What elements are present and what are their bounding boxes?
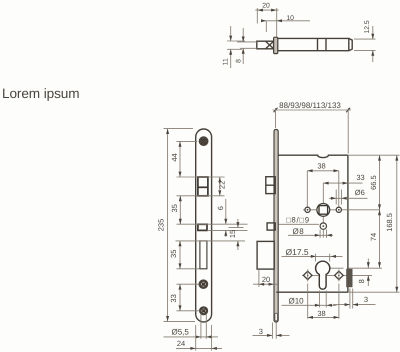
dimension 8 right upper line+arrow xyxy=(367,259,369,269)
label square 8/9 leader xyxy=(279,223,320,225)
middle screw hole xyxy=(200,281,207,288)
dimension diam10 leader line xyxy=(282,304,337,306)
dimension 10 line xyxy=(262,20,311,22)
svg-text:24: 24 xyxy=(177,339,185,348)
hole diam8 circle xyxy=(320,223,326,229)
svg-text:168.5: 168.5 xyxy=(385,213,394,232)
dimension 12.5 lower line+arrow xyxy=(372,50,374,62)
deadbolt thrown xyxy=(257,241,274,269)
svg-text:3: 3 xyxy=(364,295,368,304)
top witness extension right xyxy=(348,154,400,156)
svg-text:11: 11 xyxy=(222,58,229,65)
svg-text:20: 20 xyxy=(262,2,270,9)
witness line mid hole 284 xyxy=(177,283,199,285)
dimension 88/93/98/113/133 line xyxy=(273,109,352,111)
dimension 22 line xyxy=(219,177,221,196)
hole 5.5 witness right xyxy=(205,314,207,339)
dimension 168.5 line xyxy=(396,155,398,292)
bottom witness extension right xyxy=(348,291,400,293)
diamond centreline horizontal xyxy=(302,274,319,276)
dimension 3 left lines+arrows xyxy=(253,334,273,336)
bottom screw hole xyxy=(200,307,207,314)
witness cylinder centre right xyxy=(349,267,383,269)
shaft end vertical xyxy=(348,38,350,50)
svg-text:33: 33 xyxy=(356,173,364,182)
dimension 35a line xyxy=(179,196,181,224)
witness line slot top 240.9 xyxy=(176,240,246,242)
dimension diam8 witness lines xyxy=(319,230,321,239)
latch head rectangle xyxy=(257,41,274,49)
svg-text:12.5: 12.5 xyxy=(364,20,371,33)
svg-text:88/93/98/113/133: 88/93/98/113/133 xyxy=(279,101,341,110)
latch bevel X diagonal 2 xyxy=(266,41,274,49)
svg-text:74: 74 xyxy=(369,233,378,241)
dimension 44 line xyxy=(179,141,181,177)
witness line latch top 177 xyxy=(177,176,225,178)
shaft groove line 1 xyxy=(317,38,319,50)
witness line aux bottom 230.4 xyxy=(207,229,248,231)
dimension 3 left witness lines xyxy=(271,323,273,339)
svg-text:38: 38 xyxy=(317,309,325,318)
dimension diam10 witness lines xyxy=(318,291,320,308)
auxiliary block case view xyxy=(267,223,275,230)
dimension 24 line xyxy=(176,347,222,349)
dimension 6 upper line+arrow xyxy=(225,199,227,224)
svg-text:66.5: 66.5 xyxy=(369,175,378,190)
dimension 38 bottom line xyxy=(308,316,339,318)
right pin circle xyxy=(336,207,341,212)
dimension 15 lower line+arrow xyxy=(237,241,239,250)
dimension 8 upper line+arrow xyxy=(242,28,244,42)
svg-text:44: 44 xyxy=(170,153,179,161)
dimension 11 lower line+arrow xyxy=(230,49,232,68)
dimension 8 lower line+arrow xyxy=(242,48,244,64)
dimension diam6 leader line xyxy=(329,197,368,199)
svg-text:6: 6 xyxy=(216,206,225,210)
svg-text:10: 10 xyxy=(286,15,294,22)
dimension 20 left arrow xyxy=(257,9,263,12)
24 witness left xyxy=(195,325,197,351)
dimension diam17.5 witness lines xyxy=(315,254,317,262)
follower square xyxy=(319,206,328,215)
witness line bottom hole 310.8 xyxy=(177,310,200,312)
svg-text:Ø5,5: Ø5,5 xyxy=(172,328,190,337)
svg-text:3: 3 xyxy=(259,327,263,336)
follower outer circle xyxy=(317,204,330,217)
witness left circle up xyxy=(306,171,308,207)
witness line 11 top xyxy=(227,40,245,42)
dimension 35b line xyxy=(179,241,181,269)
case bottom edge xyxy=(276,291,348,293)
svg-text:Ø6: Ø6 xyxy=(355,188,365,197)
svg-text:Ø10: Ø10 xyxy=(289,296,305,305)
dimension 6 lower line+arrow xyxy=(225,230,227,237)
dimension 20 right arrow xyxy=(271,9,277,12)
svg-text:35: 35 xyxy=(169,250,178,258)
left diamond xyxy=(303,271,312,279)
witness line hole centre 141 xyxy=(177,140,198,142)
forend bar bottom detail xyxy=(275,313,278,321)
cylinder centreline horizontal xyxy=(323,267,344,269)
latch opening front xyxy=(198,177,208,196)
follower horizontal centreline xyxy=(303,209,380,211)
witness line 8 bottom xyxy=(240,47,257,49)
dimension diam8 leader line xyxy=(288,234,333,236)
dimension diam6 witness lines xyxy=(335,190,337,205)
svg-text:20: 20 xyxy=(262,275,270,284)
forend bar case view xyxy=(274,130,278,323)
dimension 12.5 upper line+arrow xyxy=(372,26,374,39)
svg-text:38: 38 xyxy=(317,162,325,171)
auxiliary opening front xyxy=(198,224,207,230)
svg-text:Ø17.5: Ø17.5 xyxy=(286,247,309,257)
witness line 11 bottom xyxy=(227,48,242,50)
witness line latch bottom 195.8 xyxy=(177,195,225,197)
witness line aux top 224.2 xyxy=(177,223,248,225)
witness line 8 top xyxy=(237,41,257,43)
svg-text:□8/□9: □8/□9 xyxy=(286,215,310,224)
dimension 20 line xyxy=(255,9,278,11)
dimension 8 right lower line+arrow xyxy=(367,275,369,286)
witness line 12.5 bottom xyxy=(354,49,376,51)
latch block divider xyxy=(266,184,275,186)
shaft groove line 2 xyxy=(325,38,327,50)
latch bevel X diagonal 1 xyxy=(266,41,274,49)
dimension 10 right arrow xyxy=(277,19,282,22)
dimension 20 deadbolt line xyxy=(253,283,278,285)
dimension 20 deadbolt witness xyxy=(258,269,260,287)
follower centreline vertical xyxy=(322,183,324,237)
dark block right edge xyxy=(346,269,352,287)
dimension 38 top line xyxy=(307,170,339,172)
svg-text:Lorem ipsum: Lorem ipsum xyxy=(2,86,79,101)
witness line 235 top xyxy=(164,128,194,130)
case top edge with notch xyxy=(278,155,348,157)
dimension 20 left extension line xyxy=(256,8,258,24)
right diamond xyxy=(335,271,344,279)
dimension 20 right extension line xyxy=(276,8,278,37)
dimension 33 line xyxy=(179,284,181,311)
shaft end chamfer xyxy=(349,38,352,50)
svg-text:15: 15 xyxy=(228,230,237,238)
svg-text:33: 33 xyxy=(169,294,178,302)
24 witness right xyxy=(211,325,213,351)
tick right xyxy=(346,108,350,112)
tick left xyxy=(274,108,278,112)
dimension 10 extension line xyxy=(265,21,267,32)
hole 5.5 witness left xyxy=(200,314,202,339)
deadbolt slot front xyxy=(200,241,207,269)
dimension 15 upper line+arrow xyxy=(237,219,239,228)
dimension 33 line xyxy=(323,182,362,184)
witness right circle up xyxy=(338,171,340,207)
case right edge xyxy=(347,155,349,292)
witness line aux centre 227.5 xyxy=(229,227,244,229)
left pin circle xyxy=(305,207,310,212)
dimension 235 line xyxy=(167,129,169,322)
witness line 12.5 top xyxy=(354,38,376,40)
witness line slot bottom 268.8 xyxy=(177,268,200,270)
svg-text:Ø8: Ø8 xyxy=(293,227,305,236)
top screw hole xyxy=(200,138,207,145)
dimension 10 left arrow xyxy=(261,19,266,22)
dimension 3 right witness lines xyxy=(349,289,351,309)
dimension 74 line xyxy=(379,210,381,268)
latch divider xyxy=(198,186,208,188)
dimension 66.5 line xyxy=(379,155,381,210)
spindle shaft top edge xyxy=(278,37,349,39)
dimension 11 upper line+arrow xyxy=(230,26,232,41)
spindle shaft bottom edge xyxy=(278,50,349,52)
backset witness left xyxy=(275,108,277,128)
witness line 235 bottom xyxy=(164,320,196,322)
svg-text:8: 8 xyxy=(357,279,366,283)
dimension diam17.5 leader line xyxy=(282,255,343,257)
svg-text:22: 22 xyxy=(217,181,226,189)
forend bar (side view) xyxy=(274,37,278,53)
dimension 3 right lines+arrows xyxy=(333,304,350,306)
svg-text:35: 35 xyxy=(170,204,179,212)
svg-text:8: 8 xyxy=(236,59,243,63)
witness diamonds down right xyxy=(338,284,340,319)
latch block case view xyxy=(266,177,275,194)
euro cylinder profile xyxy=(316,261,330,289)
dimension 5.5 leader line xyxy=(164,336,219,338)
svg-text:235: 235 xyxy=(156,219,165,232)
backset witness right xyxy=(347,108,349,154)
faceplate outline (stadium) xyxy=(196,129,212,322)
witness diamonds down left xyxy=(307,284,309,319)
